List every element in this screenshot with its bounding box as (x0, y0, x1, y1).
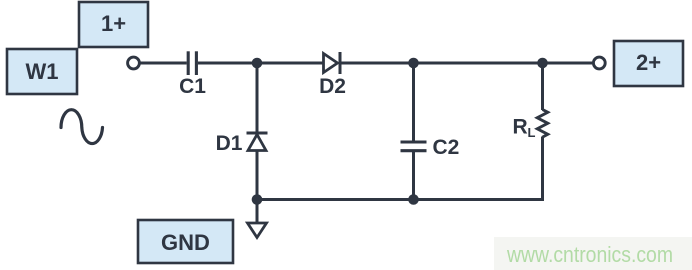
capacitor C2 (401, 142, 427, 151)
diode D1 (247, 133, 268, 151)
ground (248, 223, 267, 238)
svg-text:D1: D1 (216, 132, 243, 155)
svg-text:2+: 2+ (636, 50, 661, 75)
node E (C2 bottom junction) (408, 194, 419, 205)
svg-text:1+: 1+ (101, 11, 126, 36)
terminal box 2+ (614, 41, 683, 86)
wire: C1 to D2 (through node A) (198, 62, 323, 65)
sine wave symbol of source W1 (61, 110, 103, 144)
capacitor C1 (188, 51, 196, 75)
svg-text:www.cntronics.com: www.cntronics.com (506, 242, 673, 267)
diode D2 (324, 52, 341, 74)
node D (D1/ground junction) (252, 194, 263, 205)
node B (D2/C2 junction) (408, 58, 419, 69)
terminal box 1+ (79, 2, 148, 47)
ground box GND (138, 220, 233, 263)
wire: C2 bottom to bottom rail (412, 152, 415, 200)
label RL (513, 116, 536, 141)
wire: D1 anode down to bottom rail (256, 150, 259, 200)
svg-text:W1: W1 (26, 59, 59, 84)
svg-text:R: R (513, 116, 528, 139)
output terminal circle (593, 57, 605, 69)
svg-text:C2: C2 (433, 136, 460, 159)
svg-text:D2: D2 (319, 75, 346, 98)
svg-text:L: L (528, 125, 536, 140)
node A (C1/D1/D2 junction) (252, 58, 263, 69)
wire: bottom node to ground symbol (256, 200, 259, 224)
wire: D2 to output terminal (through node B and node C) (340, 62, 592, 65)
wire: node B down to C2 (412, 63, 415, 141)
svg-text:GND: GND (161, 230, 210, 255)
wire: input terminal to C1 (139, 62, 187, 65)
wire: RL bottom to bottom rail corner (541, 137, 543, 200)
node C (RL/output junction) (537, 58, 548, 69)
svg-text:C1: C1 (179, 75, 206, 98)
input terminal circle (128, 57, 140, 69)
wire: bottom rail (257, 198, 544, 201)
resistor RL (537, 110, 548, 138)
wire: node A down to D1 cathode (256, 63, 259, 133)
wire: node C down to RL top (541, 63, 544, 110)
source box W1 (7, 49, 77, 94)
